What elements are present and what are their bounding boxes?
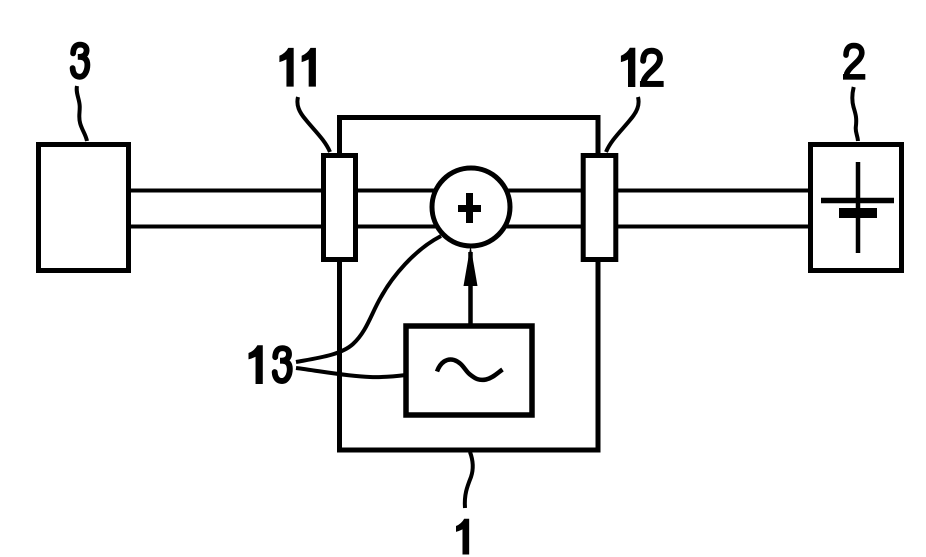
control unit box 1 (340, 118, 599, 451)
plus sign (458, 193, 481, 223)
leader line to block 3 (77, 86, 87, 141)
leader line to control unit 1 (465, 452, 473, 508)
battery short plate (839, 208, 877, 218)
battery long plate (821, 198, 894, 204)
wire lower bus (129, 225, 811, 229)
arrow head (464, 246, 478, 287)
arrow shaft (468, 252, 473, 325)
battery lead wire (856, 162, 861, 253)
leader line to contactor 11 (297, 97, 330, 152)
leader line to contactor 12 (606, 97, 639, 152)
label 1 (456, 519, 469, 555)
wire upper bus (129, 189, 811, 193)
sine wave (437, 359, 503, 379)
label 13 (249, 345, 290, 384)
block 2 (811, 145, 902, 271)
label 2 (843, 46, 865, 80)
label 12 (621, 48, 664, 87)
leader line 13 to signal source (296, 368, 406, 377)
summing junction (432, 168, 510, 246)
block 3 (39, 145, 129, 271)
signal source box 13 (406, 326, 532, 415)
leader line to block 2 (852, 87, 858, 141)
leader line 13 to summer (296, 236, 441, 362)
label 3 (73, 45, 88, 77)
contactor 11 (324, 156, 356, 260)
contactor 12 (583, 156, 616, 260)
label 11 (279, 48, 316, 87)
